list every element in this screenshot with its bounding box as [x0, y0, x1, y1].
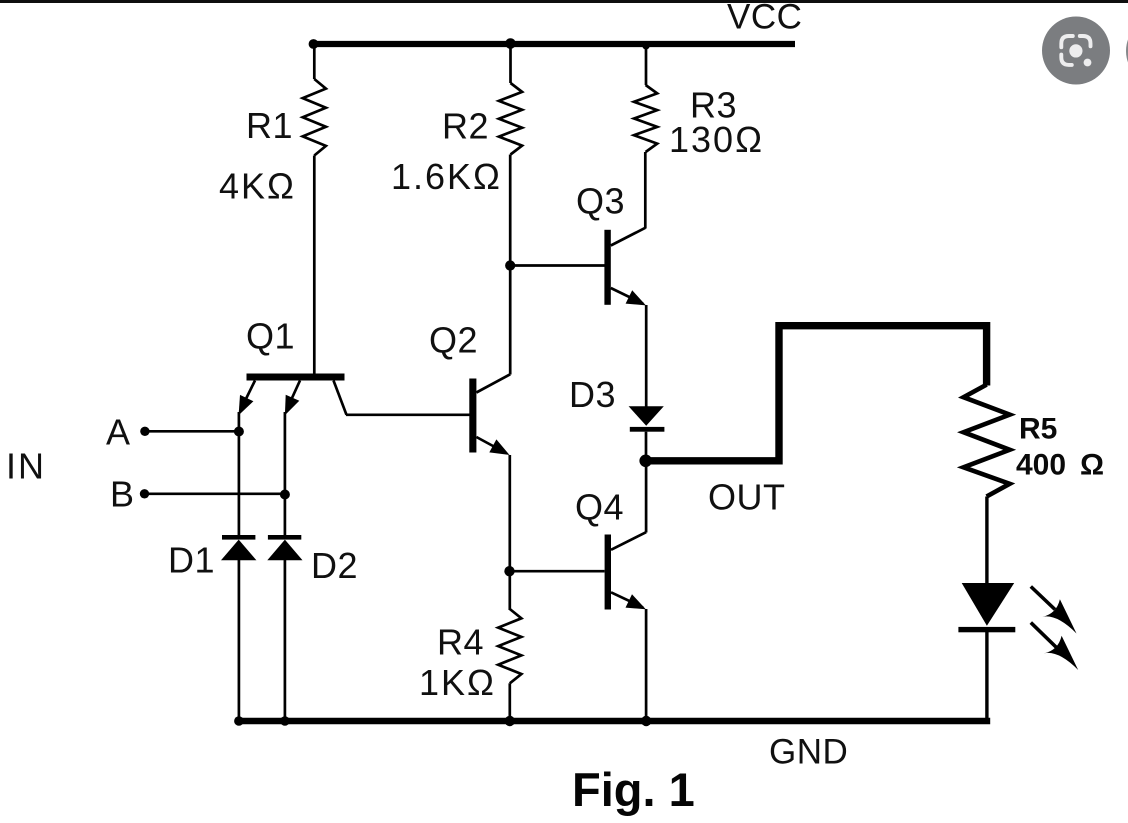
svg-text:R4: R4 [437, 622, 484, 663]
wire VCC to R2 [509, 46, 512, 83]
node gnd-D2 [280, 716, 290, 726]
diode D1 [221, 535, 256, 560]
node A junction [234, 427, 244, 437]
transistor Q1 [239, 374, 347, 416]
wire Q2 emitter down to R4 node [508, 455, 511, 610]
wire R1 to Q1 base [313, 156, 316, 375]
node gnd-R4 [505, 716, 515, 726]
wire LED to ground [985, 632, 988, 721]
node B junction [280, 490, 290, 500]
node VCC-R3 junction [642, 42, 649, 49]
svg-text:OUT: OUT [708, 477, 786, 518]
svg-text:Q1: Q1 [246, 316, 295, 357]
wire B node down through D2 to ground [284, 412, 287, 536]
svg-text:Q2: Q2 [429, 320, 478, 361]
wire R4 node to Q4 base [510, 570, 605, 573]
svg-text:R2: R2 [442, 106, 489, 147]
node R2/Q3 base junction [505, 260, 515, 270]
svg-text:R1: R1 [246, 105, 293, 146]
transistor Q3 [604, 228, 646, 306]
transistor Q4 [605, 532, 647, 609]
node Q2emitter/R4/Q4base junction [504, 566, 514, 576]
svg-text:Fig. 1: Fig. 1 [572, 763, 695, 816]
wire input B [145, 492, 285, 495]
svg-text:130Ω: 130Ω [669, 119, 764, 160]
wire R5 to LED [985, 497, 988, 584]
svg-text:1KΩ: 1KΩ [419, 662, 496, 703]
wire R2 to Q2 collector [509, 155, 512, 375]
svg-text:VCC: VCC [727, 0, 802, 37]
wire VCC to R3 [645, 46, 648, 85]
wire OUT node to Q4 collector [645, 460, 648, 533]
wire R2 node to Q3 base [510, 264, 604, 267]
svg-text:R5: R5 [1019, 413, 1057, 446]
resistor R4 [498, 609, 521, 683]
node gnd-Q4 [641, 716, 651, 726]
wire OUT (thick) to R5 [646, 326, 987, 461]
wire VCC to R1 [313, 46, 316, 79]
node VCC-R1 junction [309, 39, 319, 49]
svg-text:Ω: Ω [1080, 449, 1104, 482]
diode D3 [629, 406, 665, 431]
wire input A [145, 430, 239, 433]
wire R4 to ground [508, 683, 511, 721]
input A terminal [140, 427, 149, 436]
svg-text:A: A [106, 412, 131, 453]
resistor R2 [499, 83, 522, 155]
wire Q3 collector to R3 [644, 152, 647, 229]
svg-text:Q3: Q3 [576, 181, 625, 222]
svg-text:B: B [110, 474, 135, 515]
transistor Q2 [469, 374, 510, 455]
diode D2 [267, 535, 302, 560]
wire Q4 emitter to ground [645, 609, 648, 721]
wire A node down through D1 to ground [238, 412, 241, 536]
node OUT [639, 455, 652, 468]
svg-text:D2: D2 [311, 545, 358, 586]
svg-text:4KΩ: 4KΩ [219, 166, 296, 207]
wire Q1 collector to Q2 base [346, 413, 470, 416]
partial next icon at edge [1126, 17, 1128, 85]
svg-text:400: 400 [1016, 449, 1066, 482]
VCC rail [313, 41, 795, 47]
wire D3 to OUT node [645, 432, 648, 461]
LED D4 [958, 583, 1015, 632]
svg-text:1.6KΩ: 1.6KΩ [391, 156, 502, 197]
node VCC-R2 junction [505, 38, 516, 49]
svg-text:D1: D1 [168, 540, 215, 581]
GND rail [237, 718, 990, 724]
LED light arrow 1 [1031, 587, 1077, 634]
input B terminal [140, 489, 149, 498]
svg-text:Q4: Q4 [575, 487, 624, 528]
LED light arrow 2 [1031, 623, 1078, 670]
svg-text:IN: IN [6, 446, 46, 487]
node gnd-D1 [234, 716, 244, 726]
svg-text:D3: D3 [569, 374, 616, 415]
resistor R1 [303, 79, 326, 156]
google lens button [1042, 17, 1110, 85]
svg-text:GND: GND [769, 733, 848, 772]
wire Q3 emitter to D3 [645, 305, 648, 407]
resistor R3 [634, 85, 657, 152]
resistor R5 [964, 385, 1010, 497]
